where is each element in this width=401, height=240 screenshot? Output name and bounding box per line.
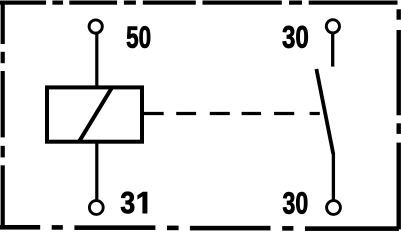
relay coil K1 (rectangle with diagonal) [47,87,142,141]
terminal 30 (bottom) [327,201,341,215]
label 30 (bottom) [283,192,307,214]
mechanical linkage (dashed) between coil and contact [144,112,320,115]
wire: terminal 50 down to coil [95,34,98,86]
label 30 (top) [283,26,308,48]
label 31 [121,192,147,214]
wire: coil down to terminal 31 [95,142,98,200]
terminal 50 [89,20,102,33]
terminal 31 [89,201,103,215]
terminal 30 (top) [326,20,339,33]
label 50 [127,26,150,48]
wire: blade hinge down to terminal 30 (bottom) [332,153,335,200]
wire: terminal 30 (top) down to contact [331,34,334,67]
switch contact blade (normally open) [316,69,333,154]
